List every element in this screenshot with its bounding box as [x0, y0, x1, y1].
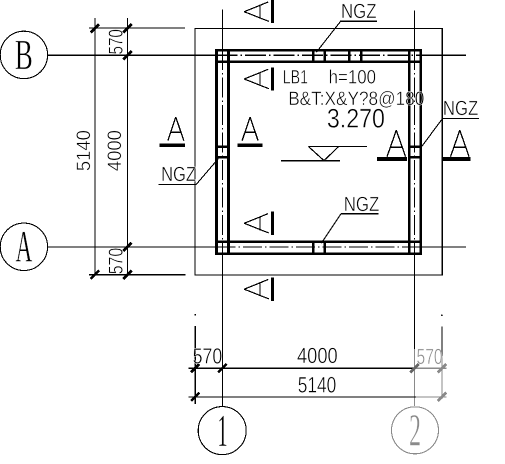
top extension line — [89, 27, 185, 29]
NGZ label bottom — [321, 193, 379, 243]
svg-text:570: 570 — [105, 248, 127, 275]
section symbol S3 (room bottom-left) — [244, 212, 272, 235]
NGZ label left — [159, 159, 219, 186]
section symbol S2 (room top-left) — [244, 67, 272, 90]
svg-text:NGZ: NGZ — [443, 97, 478, 120]
grid line 2 — [414, 11, 416, 407]
left dim line 570/4000/570 — [126, 18, 128, 275]
bottom dim line 5140 — [189, 396, 447, 398]
column T1 (top wall) — [313, 49, 324, 63]
svg-text:3.270: 3.270 — [327, 103, 385, 133]
svg-text:NGZ: NGZ — [344, 193, 380, 216]
svg-text:1: 1 — [217, 405, 228, 456]
section label A2 (inside left) — [237, 117, 262, 147]
section label A1 (outside left) — [160, 117, 185, 147]
slab outline — [195, 28, 442, 275]
column B1 (bottom wall) — [313, 241, 325, 255]
elevation symbol — [281, 146, 367, 160]
NGZ label right — [422, 97, 479, 147]
svg-text:B: B — [15, 32, 33, 79]
svg-text:5140: 5140 — [73, 130, 95, 171]
svg-text:570: 570 — [105, 29, 127, 54]
section label A4 (outside right) — [443, 130, 471, 161]
svg-text:570: 570 — [417, 344, 443, 369]
svg-text:4000: 4000 — [297, 343, 338, 368]
svg-text:A: A — [16, 221, 33, 271]
dim ticks left — [91, 24, 132, 279]
grid circle 2 — [392, 405, 439, 456]
svg-text:LB1: LB1 — [283, 67, 308, 89]
svg-text:5140: 5140 — [298, 372, 337, 397]
bottom dim line 570/4000/570 — [189, 367, 447, 369]
column R1 (right wall) — [408, 147, 421, 157]
svg-text:h=100: h=100 — [329, 67, 377, 89]
wall inner face lines — [215, 49, 422, 255]
grid line A — [48, 246, 466, 248]
svg-text:2: 2 — [409, 405, 421, 456]
section symbol S1 (above slab) — [244, 0, 272, 23]
svg-text:4000: 4000 — [104, 130, 126, 171]
wall outer rectangle — [217, 50, 421, 254]
svg-text:NGZ: NGZ — [161, 163, 196, 186]
grid circle A — [0, 221, 47, 271]
dim ticks bottom black — [191, 364, 227, 401]
bottom extension vertical left — [194, 314, 196, 404]
grid line B — [48, 54, 466, 56]
dim ticks bottom grey — [438, 364, 446, 401]
grid circle 1 — [198, 405, 246, 456]
slab label LB1 h=100 — [283, 67, 376, 89]
grid line 1 — [221, 10, 223, 407]
NGZ label top — [316, 0, 377, 52]
section label A3 (inside right) — [377, 130, 407, 161]
grid circle B — [0, 31, 47, 79]
svg-text:570: 570 — [193, 344, 223, 369]
column L1 (left wall) — [216, 147, 230, 157]
left dim line 5140 — [94, 18, 96, 275]
bottom extension vertical right (grey) — [441, 314, 443, 399]
column T2 (top wall) — [349, 49, 361, 63]
section symbol S4 (below slab) — [244, 278, 272, 301]
bottom extension line — [89, 274, 186, 276]
svg-text:NGZ: NGZ — [341, 0, 377, 23]
